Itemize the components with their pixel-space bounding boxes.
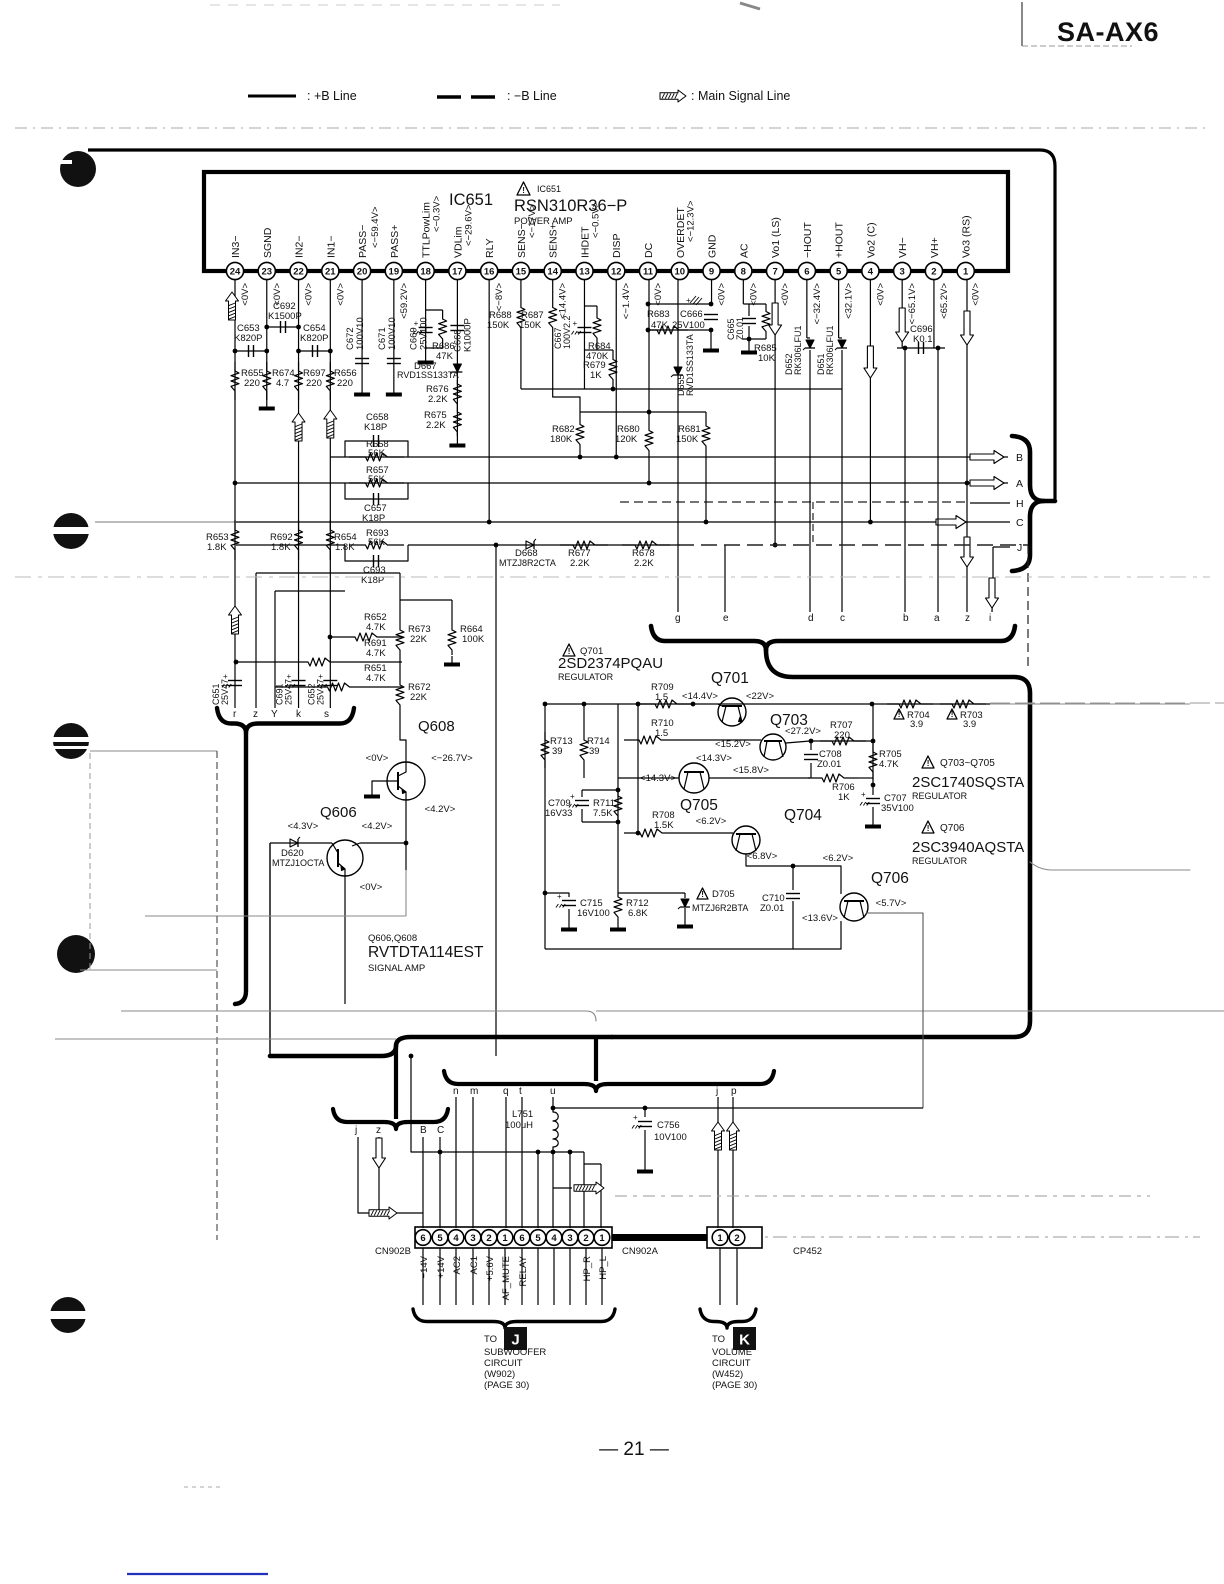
svg-text:4.7K: 4.7K xyxy=(366,648,386,659)
wire net J column x496 xyxy=(495,545,497,1056)
IC651 pin 9 circle xyxy=(703,262,720,279)
svg-text:<4.2V>: <4.2V> xyxy=(362,821,393,832)
wire q xyxy=(505,1097,507,1228)
hatched arrow k net xyxy=(292,413,305,441)
svg-text:<6.2V>: <6.2V> xyxy=(696,816,727,827)
transistor Q606 xyxy=(327,840,363,876)
svg-text:11: 11 xyxy=(643,266,654,277)
svg-text:25V47: 25V47 xyxy=(315,679,325,705)
wire row y1152 xyxy=(440,1151,584,1153)
svg-text:21: 21 xyxy=(325,266,336,277)
IC651 pin 11 circle xyxy=(639,262,656,279)
bus brace BAHCJ xyxy=(1012,436,1055,501)
svg-text:<22V>: <22V> xyxy=(746,691,774,702)
svg-text:HP_L: HP_L xyxy=(598,1256,609,1280)
wire pin3 VH- xyxy=(901,280,903,348)
capacitor C692 xyxy=(267,326,299,328)
capacitor C710 xyxy=(792,866,794,890)
svg-text:<0V>: <0V> xyxy=(780,283,791,306)
resistor R713 xyxy=(541,732,549,768)
svg-text:9: 9 xyxy=(709,266,714,277)
svg-text:b: b xyxy=(903,613,909,624)
brace j z B C bundle xyxy=(394,1045,398,1119)
registration mark 4 xyxy=(57,935,95,973)
svg-text:a: a xyxy=(934,613,940,624)
faint wire right of CP452 xyxy=(765,1236,1200,1238)
svg-text:Vo2 (C): Vo2 (C) xyxy=(865,222,877,258)
wire pin21 net s xyxy=(329,280,331,708)
capacitor C669 xyxy=(419,327,433,329)
svg-text:DC: DC xyxy=(643,242,655,258)
svg-text:+5.6V: +5.6V xyxy=(485,1255,496,1281)
wire stub a5 xyxy=(537,1152,539,1228)
transistor Q704 device xyxy=(678,832,733,834)
capacitor C696 xyxy=(897,347,945,349)
thick bus left portion xyxy=(270,1037,612,1056)
svg-text:<−17V>: <−17V> xyxy=(527,204,538,238)
svg-text:10V100: 10V100 xyxy=(654,1132,687,1143)
resistor R710 xyxy=(637,704,639,740)
faint wire y1196 right xyxy=(615,1195,1150,1197)
wire hpl xyxy=(600,1164,602,1228)
svg-text:C: C xyxy=(1016,517,1024,529)
wire B lower xyxy=(422,1137,424,1228)
svg-text:: −B Line: : −B Line xyxy=(507,89,557,103)
arrow on i net xyxy=(986,578,999,608)
svg-text:CP452: CP452 xyxy=(793,1246,822,1257)
svg-text:20: 20 xyxy=(357,266,368,277)
arrow z lower xyxy=(373,1138,386,1168)
left reg column wires xyxy=(544,704,546,949)
wire pin19 xyxy=(393,280,395,386)
svg-text:4.7: 4.7 xyxy=(276,378,289,389)
node B arrow xyxy=(970,451,1004,464)
svg-text:+: + xyxy=(570,792,575,801)
svg-text:IN3−: IN3− xyxy=(230,236,242,258)
svg-text:TO: TO xyxy=(712,1334,725,1345)
connector pin 5 xyxy=(432,1230,448,1246)
faint line y703 right xyxy=(990,702,1224,704)
resistor R653 xyxy=(233,481,238,486)
connector tail wire xyxy=(504,1248,506,1305)
svg-text:AC1: AC1 xyxy=(469,1256,480,1274)
wire regulator top rail y704 xyxy=(545,703,872,705)
IC651 pin 5 circle xyxy=(830,262,847,279)
wire pin8 AC xyxy=(742,280,744,304)
faint dashed mid page xyxy=(15,576,1210,578)
svg-text:4.7K: 4.7K xyxy=(366,673,386,684)
svg-text:<15.8V>: <15.8V> xyxy=(733,765,769,776)
resistor R676 xyxy=(453,380,461,408)
wire pin23 xyxy=(266,280,268,400)
IC651 pin 24 circle xyxy=(226,262,243,279)
svg-text:7: 7 xyxy=(772,266,777,277)
IC651 pin 8 circle xyxy=(735,262,752,279)
svg-text:15: 15 xyxy=(516,266,527,277)
svg-text:VH+: VH+ xyxy=(929,237,941,258)
svg-text:C: C xyxy=(437,1125,444,1136)
connector tail wire xyxy=(537,1248,539,1305)
blue mark bottom xyxy=(127,1573,268,1575)
svg-text:+: + xyxy=(861,790,866,799)
svg-text:J: J xyxy=(511,1332,519,1349)
faint bus y1039 left xyxy=(55,1038,396,1040)
connector pin 1 xyxy=(497,1230,513,1246)
wire pin14 SENS+ with resistor R687 xyxy=(549,280,557,355)
R683 C666 box rails xyxy=(648,303,711,305)
tiny marks xyxy=(184,1486,220,1488)
connector tail wire xyxy=(472,1248,474,1305)
hatched arrow p cp xyxy=(727,1122,740,1150)
svg-text:<0V>: <0V> xyxy=(653,283,664,306)
hatched arrow pin24 xyxy=(226,292,239,320)
ground C756 xyxy=(644,1163,646,1170)
svg-text:1.8K: 1.8K xyxy=(271,542,291,553)
svg-text:RELAY: RELAY xyxy=(518,1255,529,1286)
ground D705 xyxy=(684,918,686,925)
svg-text:<−26.7V>: <−26.7V> xyxy=(431,753,473,764)
registration mark 5 xyxy=(50,1297,86,1333)
IC651 pin 17 circle xyxy=(449,262,466,279)
wire j lower xyxy=(358,1137,423,1213)
thick wire left bundle down xyxy=(235,733,246,1004)
svg-text:IC651: IC651 xyxy=(537,184,561,194)
net Y stub xyxy=(274,591,276,708)
diode D655 xyxy=(674,367,682,375)
connector pin 3 xyxy=(562,1230,578,1246)
svg-text:<0V>: <0V> xyxy=(875,283,886,306)
svg-text:<−59.4V>: <−59.4V> xyxy=(370,206,381,248)
svg-text:<−65.1V>: <−65.1V> xyxy=(907,283,918,325)
arrow on z net xyxy=(961,537,974,567)
IC651 pin 7 circle xyxy=(766,262,783,279)
svg-text:4.7K: 4.7K xyxy=(366,622,386,633)
svg-text:RK306LFU1: RK306LFU1 xyxy=(825,325,835,375)
svg-text:!: ! xyxy=(927,759,930,768)
ground pin23 net xyxy=(266,400,268,407)
wire pin20 xyxy=(361,280,363,386)
svg-text:2: 2 xyxy=(931,266,936,277)
svg-text:Q706: Q706 xyxy=(871,870,909,887)
svg-text:+: + xyxy=(686,296,691,305)
svg-text:+: + xyxy=(572,319,577,328)
ground C672 xyxy=(361,386,363,393)
resistor R683 xyxy=(648,326,688,334)
svg-text:IN2−: IN2− xyxy=(294,236,306,258)
wire net a xyxy=(937,348,939,612)
svg-text:16: 16 xyxy=(484,266,495,277)
svg-text:!: ! xyxy=(927,824,930,833)
svg-text:DISP: DISP xyxy=(611,233,623,258)
wire from mark4 row xyxy=(145,915,406,917)
svg-text:PASS+: PASS+ xyxy=(389,225,401,258)
hatched arrow s net xyxy=(324,410,337,438)
wire pin6 -HOUT net d xyxy=(806,280,808,338)
connector tail wire xyxy=(553,1248,555,1305)
resistor R678 xyxy=(622,541,670,549)
svg-text:AC2: AC2 xyxy=(452,1256,463,1274)
wire pin2 VH+ xyxy=(933,280,935,348)
svg-text:Q705: Q705 xyxy=(680,797,718,814)
svg-text:Q701: Q701 xyxy=(711,670,749,687)
Q606 collector wire xyxy=(352,843,406,846)
wire u + inductor L751 xyxy=(552,1097,554,1112)
svg-text:23: 23 xyxy=(261,266,272,277)
svg-text:+HOUT: +HOUT xyxy=(834,222,846,258)
svg-text:<0V>: <0V> xyxy=(971,283,982,306)
svg-text:<−0.3V>: <−0.3V> xyxy=(432,195,443,232)
svg-text:220: 220 xyxy=(306,378,322,389)
svg-text:12: 12 xyxy=(611,266,622,277)
svg-text:1.8K: 1.8K xyxy=(335,542,355,553)
svg-text:47K: 47K xyxy=(436,351,454,362)
svg-text:1: 1 xyxy=(599,1233,605,1244)
svg-text:<0V>: <0V> xyxy=(366,753,389,764)
wire hpr xyxy=(569,1152,571,1228)
wire +B top bus xyxy=(88,150,1055,499)
IC651 pin 20 circle xyxy=(353,262,370,279)
svg-text:K18P: K18P xyxy=(364,422,387,433)
node A arrow xyxy=(970,477,1004,490)
svg-text:CN902B: CN902B xyxy=(375,1246,411,1257)
svg-text:1.8K: 1.8K xyxy=(207,542,227,553)
diode D652 xyxy=(806,340,814,348)
svg-text:1.5K: 1.5K xyxy=(654,820,674,831)
arrow j lower xyxy=(369,1207,397,1219)
wire Q608 emitter xyxy=(405,800,407,843)
wire pin17 net xyxy=(456,280,458,437)
svg-text:8: 8 xyxy=(741,266,746,277)
svg-text:39: 39 xyxy=(589,746,600,757)
IC651 pin 13 circle xyxy=(576,262,593,279)
svg-text:A: A xyxy=(1016,478,1023,490)
IC651 power amp box xyxy=(204,172,1008,271)
wire n xyxy=(455,1097,457,1228)
svg-text:!: ! xyxy=(701,890,704,899)
resistor R697 xyxy=(295,362,303,400)
svg-text:Q704: Q704 xyxy=(784,807,822,824)
svg-text:1: 1 xyxy=(717,1233,723,1244)
resistor R674 xyxy=(263,362,271,400)
svg-text:<6.8V>: <6.8V> xyxy=(747,851,778,862)
resistor R708 xyxy=(637,740,639,833)
svg-text:j: j xyxy=(354,1125,357,1136)
wire pin10 OVERDET net g xyxy=(677,280,679,612)
wire D705 top xyxy=(618,892,685,894)
svg-text:(PAGE 30): (PAGE 30) xyxy=(484,1380,529,1391)
svg-text:5: 5 xyxy=(836,266,842,277)
svg-text:Q608: Q608 xyxy=(418,718,455,735)
svg-text:K1000P: K1000P xyxy=(462,318,473,352)
svg-text:22K: 22K xyxy=(410,692,428,703)
svg-text:3.9: 3.9 xyxy=(963,719,976,730)
svg-text:Q703~Q705: Q703~Q705 xyxy=(940,758,995,769)
svg-text:Z0.01: Z0.01 xyxy=(735,317,745,340)
svg-text:SENS+: SENS+ xyxy=(548,223,560,258)
svg-text:2.2K: 2.2K xyxy=(570,558,590,569)
connector pin 6 xyxy=(514,1230,530,1246)
svg-text:K820P: K820P xyxy=(234,333,263,344)
svg-text:+: + xyxy=(557,892,562,901)
resistor R681 xyxy=(702,412,710,460)
resistor R707 xyxy=(820,737,866,745)
svg-text:220: 220 xyxy=(244,378,260,389)
svg-text:<0V>: <0V> xyxy=(240,283,251,306)
svg-text:CN902A: CN902A xyxy=(622,1246,659,1257)
svg-text:3.9: 3.9 xyxy=(910,719,923,730)
arrow pin3 xyxy=(896,308,909,342)
svg-text:180K: 180K xyxy=(550,434,573,445)
IC651 pin 15 circle xyxy=(512,262,529,279)
arrow pin4 xyxy=(864,346,877,378)
svg-text:Z0.01: Z0.01 xyxy=(760,903,784,914)
IC651 pin 22 circle xyxy=(290,262,307,279)
diode D667 xyxy=(453,364,461,372)
diode D620 xyxy=(270,842,332,844)
svg-text:4: 4 xyxy=(551,1233,557,1244)
svg-text:2SD2374PQAU: 2SD2374PQAU xyxy=(558,655,663,672)
svg-text:AC: AC xyxy=(738,243,750,258)
svg-text:Q606: Q606 xyxy=(320,804,357,821)
svg-text:1K: 1K xyxy=(590,370,602,381)
thick link to CP452 xyxy=(612,1234,707,1241)
svg-text:SUBWOOFER: SUBWOOFER xyxy=(484,1347,546,1358)
node J line xyxy=(993,546,1010,548)
svg-text:SA-AX6: SA-AX6 xyxy=(1057,17,1159,47)
svg-text:2: 2 xyxy=(734,1233,739,1244)
ground C666 xyxy=(710,342,712,349)
svg-text:Vo1 (LS): Vo1 (LS) xyxy=(770,217,782,258)
IC651 pin 23 circle xyxy=(258,262,275,279)
dashed vertical x813 xyxy=(812,502,814,545)
svg-text:<15.2V>: <15.2V> xyxy=(715,739,751,750)
arrow hp xyxy=(574,1182,604,1194)
connector CP452 box xyxy=(707,1227,762,1248)
wire j cp452 xyxy=(717,1097,719,1228)
svg-text:!: ! xyxy=(898,710,901,719)
J flag box xyxy=(504,1327,527,1350)
legend -B line sample xyxy=(437,95,461,99)
connector tail wire xyxy=(422,1248,424,1305)
resistor R664 xyxy=(451,600,453,625)
svg-text:56K: 56K xyxy=(368,448,386,459)
diode D651 xyxy=(838,340,846,348)
svg-text:10K: 10K xyxy=(758,353,776,364)
svg-text:6: 6 xyxy=(804,266,809,277)
node H line xyxy=(970,502,1010,504)
svg-text:<6.2V>: <6.2V> xyxy=(823,853,854,864)
svg-text:−HOUT: −HOUT xyxy=(802,222,814,258)
svg-text:3: 3 xyxy=(567,1233,572,1244)
node C arrow xyxy=(936,516,966,529)
svg-text:K820P: K820P xyxy=(300,333,329,344)
wire pin5 +HOUT net c xyxy=(838,280,840,338)
svg-text:<−8V>: <−8V> xyxy=(494,283,505,312)
connector tail wire xyxy=(488,1248,490,1305)
svg-text:K0.1: K0.1 xyxy=(913,334,933,345)
resistor R679 xyxy=(597,349,613,351)
svg-text:<14.3V>: <14.3V> xyxy=(696,753,732,764)
wire z net vertical xyxy=(966,280,968,612)
wire Q704 emitter to Q706 xyxy=(746,854,841,894)
svg-text:RVD1SS133TA: RVD1SS133TA xyxy=(685,334,695,396)
sense rail y389 xyxy=(521,388,842,390)
legend signal arrow xyxy=(660,90,686,102)
capacitor C654 xyxy=(299,350,331,352)
svg-text:Z0.01: Z0.01 xyxy=(817,759,841,770)
zener D705 xyxy=(684,893,686,898)
svg-text:K18P: K18P xyxy=(362,513,385,524)
connector pin 5 xyxy=(530,1230,546,1246)
connector pin 6 xyxy=(415,1230,431,1246)
connector tail wire xyxy=(439,1248,441,1305)
svg-text:g: g xyxy=(675,613,681,624)
resistor R705 xyxy=(869,744,877,780)
svg-text:MTZJ8R2CTA: MTZJ8R2CTA xyxy=(499,558,556,568)
svg-text:220: 220 xyxy=(337,378,353,389)
svg-text:+: + xyxy=(633,1113,638,1122)
svg-text:4: 4 xyxy=(868,266,874,277)
capacitor C667 xyxy=(577,327,591,329)
svg-text:j: j xyxy=(715,1086,718,1097)
wire Q608 net down to bundle xyxy=(405,843,407,870)
svg-text:SIGNAL AMP: SIGNAL AMP xyxy=(368,963,425,974)
transistor Q608 xyxy=(387,762,425,800)
diode D668 xyxy=(526,541,534,549)
svg-text:RK306LFU1: RK306LFU1 xyxy=(793,325,803,375)
wire right reg column xyxy=(872,704,874,790)
capacitor C651 xyxy=(228,680,242,682)
CP452 pin 2 xyxy=(729,1230,745,1246)
net e stub xyxy=(724,545,726,612)
IC651 pin 16 circle xyxy=(481,262,498,279)
svg-text:5: 5 xyxy=(535,1233,541,1244)
resistor R692 xyxy=(295,520,303,560)
svg-text:<0V>: <0V> xyxy=(717,283,728,306)
rail y410 xyxy=(580,411,706,413)
svg-text:MTZJ1OCTA: MTZJ1OCTA xyxy=(272,858,324,868)
svg-text:K1500P: K1500P xyxy=(268,311,302,322)
transistor Q706 device xyxy=(840,893,868,921)
svg-text:6: 6 xyxy=(420,1233,425,1244)
svg-text:<14.4V>: <14.4V> xyxy=(558,283,569,319)
wire m xyxy=(472,1097,474,1228)
svg-text:<5.7V>: <5.7V> xyxy=(876,898,907,909)
svg-text:14: 14 xyxy=(547,266,558,277)
svg-text:u: u xyxy=(550,1086,556,1097)
svg-text:C756: C756 xyxy=(657,1120,680,1131)
resistor R673 xyxy=(396,625,404,655)
svg-text:19: 19 xyxy=(389,266,400,277)
dashed line H extension xyxy=(620,501,966,503)
svg-text:Q606,Q608: Q606,Q608 xyxy=(368,933,417,944)
svg-text:+14V: +14V xyxy=(436,1255,447,1278)
capacitor C671 xyxy=(387,358,401,360)
wire bottom rail to Q706 bottom xyxy=(793,921,841,949)
svg-text:<4.3V>: <4.3V> xyxy=(288,821,319,832)
ground C715 xyxy=(568,921,570,928)
resistor R677 xyxy=(560,541,608,549)
svg-text:CIRCUIT: CIRCUIT xyxy=(484,1358,523,1369)
connector pin 2 xyxy=(578,1230,594,1246)
wire y545 to bus corner xyxy=(1027,545,1029,670)
wire pin16 RLY xyxy=(488,280,490,522)
wire pin11 DC + resistor R680 xyxy=(648,280,650,424)
wire line y545 xyxy=(236,544,345,546)
connector CN902B/CN902A box xyxy=(415,1227,612,1248)
IC651 pin 18 circle xyxy=(417,262,434,279)
svg-text:150K: 150K xyxy=(487,320,510,331)
